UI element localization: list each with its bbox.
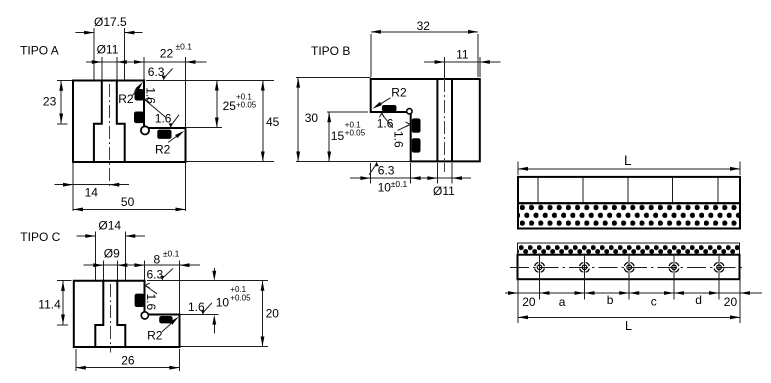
svg-text:1.6: 1.6 <box>392 131 406 148</box>
hole walls TIPO B <box>437 79 452 161</box>
svg-text:14: 14 <box>85 186 99 200</box>
svg-text:d: d <box>695 293 702 307</box>
svg-text:45: 45 <box>266 115 280 129</box>
svg-text:b: b <box>607 293 614 307</box>
svg-text:a: a <box>559 295 566 309</box>
bar horizontal centerline <box>510 266 743 268</box>
dimension 10 ±0.1 TIPO B <box>350 177 471 179</box>
insert blob under recess floor TIPO C <box>159 316 172 323</box>
centerline TIPO B <box>444 57 446 79</box>
svg-text:Ø11: Ø11 <box>97 43 119 57</box>
top strip bonded layer with dots <box>518 203 740 228</box>
svg-text:Ø17.5: Ø17.5 <box>94 15 127 29</box>
fillet R2 corner circle TIPO A <box>141 126 149 134</box>
svg-text:c: c <box>651 295 657 309</box>
dimension 45 TIPO A <box>262 81 264 162</box>
svg-text:50: 50 <box>121 195 135 209</box>
svg-text:30: 30 <box>305 111 319 125</box>
insert blob on recess wall TIPO C <box>135 294 145 307</box>
hole and counterbore TIPO A <box>94 81 125 163</box>
insert blob on recess floor TIPO B <box>382 105 397 112</box>
svg-text:TIPO A: TIPO A <box>20 44 59 58</box>
centerline TIPO A <box>108 84 110 188</box>
svg-text:R2: R2 <box>118 92 134 106</box>
dimension 10 +0.1/+0.05 TIPO C <box>212 271 216 281</box>
extension lines right TIPO C <box>147 280 268 282</box>
svg-text:11: 11 <box>456 47 469 61</box>
top strip segment divider lines <box>537 177 539 203</box>
insert blobs on recess wall TIPO B <box>412 118 421 132</box>
svg-text:25: 25 <box>223 99 237 113</box>
dimension L bottom strip <box>518 316 740 318</box>
chain dimension extension lines <box>517 279 519 323</box>
svg-text:1.6: 1.6 <box>144 87 158 104</box>
insert blobs on recess wall TIPO A <box>135 89 145 101</box>
svg-text:R2: R2 <box>155 142 171 156</box>
svg-text:L: L <box>625 319 632 333</box>
svg-text:20: 20 <box>266 307 280 321</box>
svg-text:6.3: 6.3 <box>147 268 164 282</box>
svg-text:22: 22 <box>160 46 174 60</box>
svg-text:R2: R2 <box>391 86 407 100</box>
svg-text:1.6: 1.6 <box>144 293 158 310</box>
svg-text:Ø11: Ø11 <box>433 184 455 198</box>
hole and counterbore TIPO C <box>95 281 125 347</box>
block outline TIPO A <box>73 81 186 163</box>
svg-text:20: 20 <box>724 295 738 309</box>
dimension Ø11 bottom TIPO B <box>427 176 437 180</box>
svg-text:8: 8 <box>154 253 161 267</box>
svg-text:Ø9: Ø9 <box>104 247 120 261</box>
svg-text:TIPO B: TIPO B <box>311 44 350 58</box>
centerline TIPO C <box>109 284 111 353</box>
svg-text:15: 15 <box>331 129 345 143</box>
svg-text:11.4: 11.4 <box>38 298 61 312</box>
svg-text:+0.05: +0.05 <box>345 129 366 138</box>
svg-text:+0.05: +0.05 <box>236 101 257 110</box>
fillet R2 corner circle TIPO B <box>407 109 412 114</box>
top strip body outline <box>518 177 740 203</box>
svg-text:R2: R2 <box>147 329 163 343</box>
fillet R2 corner circle TIPO C <box>141 312 148 319</box>
svg-text:26: 26 <box>121 353 135 367</box>
svg-text:32: 32 <box>417 19 431 33</box>
svg-text:TIPO C: TIPO C <box>20 230 60 244</box>
extension lines right TIPO A <box>146 80 274 82</box>
svg-text:10: 10 <box>378 180 392 194</box>
dimension 25 +0.1/+0.05 TIPO A <box>216 81 218 128</box>
chain dimension line 20 a b c d 20 <box>505 292 762 294</box>
svg-text:±0.1: ±0.1 <box>391 179 408 189</box>
svg-text:Ø14: Ø14 <box>98 219 121 233</box>
svg-text:20: 20 <box>522 295 536 309</box>
bottom strip bar outline <box>518 255 740 280</box>
svg-text:L: L <box>624 153 632 168</box>
svg-text:6.3: 6.3 <box>378 163 395 177</box>
insert blob under recess floor TIPO A <box>157 130 171 139</box>
bottom strip bonded layer with dots <box>518 243 740 255</box>
mounting hole symbols on bar <box>535 254 545 300</box>
block outline TIPO B <box>371 79 480 161</box>
svg-text:10: 10 <box>216 296 230 310</box>
svg-text:23: 23 <box>43 94 57 108</box>
svg-text:±0.1: ±0.1 <box>176 42 193 52</box>
block outline TIPO C <box>74 281 180 347</box>
svg-text:±0.1: ±0.1 <box>163 248 180 258</box>
svg-text:+0.05: +0.05 <box>230 293 251 302</box>
